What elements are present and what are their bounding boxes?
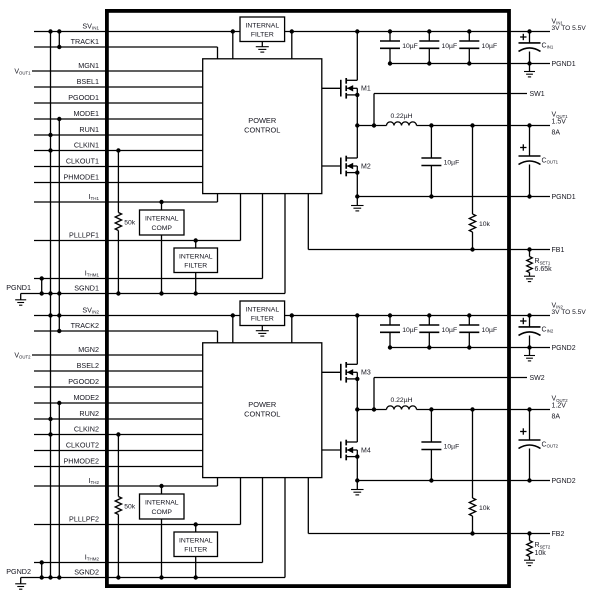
wire BSEL1 pin row: [34, 86, 203, 88]
wire FB1 net: [308, 194, 550, 250]
wire risers SVIN to power control: [233, 316, 292, 343]
inductor L1 0.22uH: [387, 113, 417, 126]
capacitor 10uF input #2 ch1: [419, 32, 457, 64]
svg-text:10µF: 10µF: [402, 327, 418, 334]
capacitor 10uF output ch1: [421, 126, 459, 197]
svg-text:6.65k: 6.65k: [535, 266, 553, 273]
wire PGND2 output rail: [357, 480, 550, 482]
svg-text:10k: 10k: [479, 221, 491, 228]
svg-text:3V TO 5.5V: 3V TO 5.5V: [552, 309, 587, 316]
svg-text:INTERNAL: INTERNAL: [245, 307, 279, 314]
wire M4 source to PGND rail: [356, 457, 358, 481]
svg-text:PGND1: PGND1: [552, 61, 576, 68]
svg-text:10µF: 10µF: [444, 444, 460, 451]
capacitor C_IN2: [519, 316, 554, 348]
svg-text:SW1: SW1: [530, 91, 545, 98]
svg-text:PLLLPF1: PLLLPF1: [69, 230, 99, 239]
op-amp internal filter block (PLLLPF2): [174, 525, 218, 578]
wire ITH1 pin row: [34, 194, 218, 202]
svg-text:RUN1: RUN1: [79, 125, 99, 134]
svg-text:PGND2: PGND2: [6, 567, 31, 576]
svg-text:PGND2: PGND2: [552, 345, 576, 352]
svg-text:1.2V: 1.2V: [552, 402, 567, 409]
wire CLKIN2 pin row: [34, 434, 203, 436]
ground: [524, 348, 535, 361]
wire RUN2 pin row: [34, 418, 203, 420]
junction dots ch1: [40, 29, 532, 295]
wire SW node: [357, 409, 386, 411]
wire PGOOD1 pin row: [34, 102, 203, 104]
svg-text:TRACK2: TRACK2: [71, 321, 99, 330]
wire BSEL2 pin row: [34, 370, 203, 372]
wire CLKOUT2 pin row: [34, 450, 203, 452]
resistor 10k divider ch2: [469, 410, 490, 534]
svg-text:CONTROL: CONTROL: [244, 125, 280, 134]
svg-text:10µF: 10µF: [442, 327, 458, 334]
junction dots ch2: [40, 313, 532, 579]
capacitor 10uF input #3 ch1: [459, 32, 497, 64]
svg-text:INTERNAL: INTERNAL: [179, 538, 213, 545]
wire ITHM2 to SGND2 link: [41, 563, 43, 578]
svg-text:FILTER: FILTER: [184, 547, 207, 554]
ground: [15, 294, 26, 306]
resistor 50k (CLKIN1 pulldown): [115, 151, 136, 294]
svg-text:PGOOD2: PGOOD2: [68, 377, 99, 386]
capacitor C_IN1: [519, 32, 554, 64]
transistor M2: [322, 156, 371, 177]
svg-text:FILTER: FILTER: [184, 263, 207, 270]
wire M2 source to PGND rail: [356, 173, 358, 197]
wire ITHM1 pin row: [34, 194, 263, 279]
svg-text:INTERNAL: INTERNAL: [245, 23, 279, 30]
ground: [15, 578, 26, 590]
svg-text:50k: 50k: [124, 504, 136, 511]
resistor R_SET2 10k: [527, 534, 551, 561]
capacitor 10uF input #2 ch2: [419, 316, 457, 348]
resistor 50k (CLKIN2 pulldown): [115, 435, 136, 578]
svg-text:SGND1: SGND1: [74, 283, 99, 292]
svg-text:FB2: FB2: [552, 531, 565, 538]
wire SW1: [374, 94, 527, 126]
wire M4 drain to SW node: [356, 410, 358, 443]
wire SV_IN2 pin row: [34, 315, 550, 317]
capacitor C_OUT1: [519, 126, 559, 197]
svg-text:PLLLPF2: PLLLPF2: [69, 514, 99, 523]
svg-text:CONTROL: CONTROL: [244, 409, 280, 418]
capacitor C_OUT2: [519, 410, 559, 481]
wire CLKIN1 pin row: [34, 150, 203, 152]
svg-text:FILTER: FILTER: [251, 32, 274, 39]
svg-text:10k: 10k: [479, 505, 491, 512]
wire SV_IN1 pin row: [34, 31, 550, 33]
svg-text:10µF: 10µF: [442, 43, 458, 50]
op-amp U1 power control block: [203, 59, 322, 194]
svg-text:FILTER: FILTER: [251, 316, 274, 323]
svg-text:10k: 10k: [535, 550, 547, 557]
wire SGND2 pin row: [21, 478, 285, 578]
svg-text:0.22µH: 0.22µH: [390, 397, 412, 404]
wire FB2 net: [308, 478, 550, 534]
op-amp internal comp block (ITH2): [140, 486, 185, 578]
op-amp internal filter block (SVIN1): [240, 17, 285, 42]
op-amp internal comp block (ITH1): [140, 202, 185, 294]
wire ITH2 pin row: [34, 478, 218, 486]
wire CLKOUT1 pin row: [34, 166, 203, 168]
wire ITHM2 pin row: [34, 478, 263, 563]
svg-text:8A: 8A: [552, 413, 561, 420]
svg-text:COMP: COMP: [152, 509, 173, 516]
resistor 10k divider ch1: [469, 126, 490, 250]
wire TRACK2 pin row: [34, 331, 218, 343]
svg-text:10µF: 10µF: [444, 160, 460, 167]
svg-text:INTERNAL: INTERNAL: [179, 254, 213, 261]
op-amp internal filter block (PLLLPF1): [174, 241, 218, 294]
wire M1 drain to VIN: [356, 32, 358, 81]
svg-text:PGND2: PGND2: [552, 478, 576, 485]
svg-text:1.5V: 1.5V: [552, 118, 567, 125]
node V_IN1: [552, 18, 587, 32]
wire VOUT2 row: [417, 409, 551, 411]
wire MGN2 pin row: [32, 354, 203, 356]
transistor M3: [322, 362, 371, 383]
wire PLLLPF2 pin row: [34, 478, 241, 525]
svg-text:CLKOUT2: CLKOUT2: [66, 440, 99, 449]
svg-text:CLKOUT1: CLKOUT1: [66, 156, 99, 165]
node V_OUT1: [552, 112, 569, 137]
svg-text:M1: M1: [361, 86, 371, 93]
svg-text:10µF: 10µF: [482, 43, 498, 50]
svg-text:PGND1: PGND1: [552, 194, 576, 201]
wire PGND1 input rail: [390, 63, 550, 65]
wire MGN1 pin row: [32, 70, 203, 72]
svg-text:BSEL1: BSEL1: [77, 77, 99, 86]
wire PGND2 input rail: [390, 347, 550, 349]
transistor M1: [322, 78, 371, 99]
svg-text:INTERNAL: INTERNAL: [145, 216, 179, 223]
svg-text:POWER: POWER: [248, 400, 276, 409]
capacitor 10uF input #1 ch1: [380, 32, 418, 64]
svg-text:M2: M2: [361, 163, 371, 170]
svg-text:CLKIN1: CLKIN1: [74, 140, 99, 149]
wire PGOOD2 pin row: [34, 386, 203, 388]
wire M3 source to SW node: [356, 379, 358, 410]
wire PLLLPF1 pin row: [34, 194, 241, 241]
ground: [524, 64, 535, 77]
svg-text:PGND1: PGND1: [6, 283, 31, 292]
wire TRACK1 pin row: [34, 47, 218, 59]
ground: [351, 481, 364, 495]
ground: [256, 42, 269, 53]
capacitor 10uF input #3 ch2: [459, 316, 497, 348]
op-amp U2 power control block: [203, 343, 322, 478]
IC module outline U1: [107, 11, 509, 586]
svg-text:M4: M4: [361, 447, 371, 454]
op-amp internal filter block (SVIN2): [240, 301, 285, 326]
svg-text:POWER: POWER: [248, 116, 276, 125]
transistor M4: [322, 440, 371, 461]
svg-text:COMP: COMP: [152, 225, 173, 232]
inductor L2 0.22uH: [387, 397, 417, 410]
resistor R_SET1 6.65k: [527, 250, 552, 277]
svg-text:SGND2: SGND2: [74, 567, 99, 576]
ground: [351, 197, 364, 211]
node V_IN2: [552, 302, 587, 316]
capacitor 10uF output ch2: [421, 410, 459, 481]
wire PHMODE2 pin row: [34, 466, 203, 468]
svg-text:BSEL2: BSEL2: [77, 361, 99, 370]
svg-text:TRACK1: TRACK1: [71, 37, 99, 46]
svg-text:50k: 50k: [124, 220, 136, 227]
wire M3 drain to VIN: [356, 316, 358, 365]
svg-text:M3: M3: [361, 370, 371, 377]
wire M1 source to SW node: [356, 95, 358, 126]
svg-text:MODE1: MODE1: [73, 109, 99, 118]
svg-text:SW2: SW2: [530, 375, 545, 382]
svg-text:FB1: FB1: [552, 247, 565, 254]
wire VOUT1 row: [417, 125, 551, 127]
capacitor 10uF input #1 ch2: [380, 316, 418, 348]
svg-text:MGN1: MGN1: [78, 61, 99, 70]
svg-text:10µF: 10µF: [482, 327, 498, 334]
wire M2 drain to SW node: [356, 126, 358, 159]
wire left bus B segments: [58, 32, 60, 578]
svg-text:CLKIN2: CLKIN2: [74, 424, 99, 433]
wire SW2: [374, 378, 527, 410]
svg-text:8A: 8A: [552, 129, 561, 136]
svg-text:0.22µH: 0.22µH: [390, 113, 412, 120]
svg-text:MODE2: MODE2: [73, 393, 99, 402]
wire PHMODE1 pin row: [34, 182, 203, 184]
wire PGND1 output rail: [357, 196, 550, 198]
svg-text:PHMODE2: PHMODE2: [63, 456, 99, 465]
svg-text:PGOOD1: PGOOD1: [68, 93, 99, 102]
svg-text:PHMODE1: PHMODE1: [63, 172, 99, 181]
wire SGND1 pin row: [21, 194, 285, 294]
svg-text:INTERNAL: INTERNAL: [145, 500, 179, 507]
wire left bus A: [50, 32, 52, 578]
ground: [256, 326, 269, 337]
wire SW node: [357, 125, 386, 127]
wire ITHM1 to SGND1 link: [41, 279, 43, 294]
ground: [524, 275, 535, 277]
wire RUN1 pin row: [34, 134, 203, 136]
svg-text:10µF: 10µF: [402, 43, 418, 50]
wire risers SVIN to power control: [233, 32, 292, 59]
ground: [524, 559, 535, 561]
svg-text:RUN2: RUN2: [79, 409, 99, 418]
svg-text:MGN2: MGN2: [78, 345, 99, 354]
svg-text:3V TO 5.5V: 3V TO 5.5V: [552, 25, 587, 32]
wire MODE1 pin row: [34, 118, 203, 120]
wire MODE2 pin row: [34, 402, 203, 404]
node V_OUT2: [552, 396, 569, 421]
